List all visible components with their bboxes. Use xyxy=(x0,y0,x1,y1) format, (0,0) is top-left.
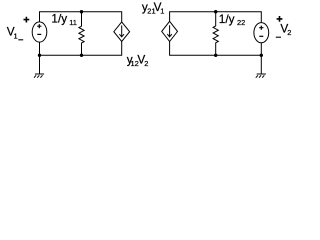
svg-text:2: 2 xyxy=(287,28,291,37)
wire: right circuit top rail xyxy=(170,12,262,23)
ground (right) xyxy=(256,55,266,77)
node dot: top of resistor 1/y11 xyxy=(80,10,83,13)
label V2 xyxy=(280,21,291,37)
label 1/y11 xyxy=(51,11,77,27)
polarity + of V2 xyxy=(277,16,283,22)
node dot: bottom of resistor 1/y22 xyxy=(214,54,217,57)
wire: left circuit bottom rail xyxy=(40,42,122,56)
wire: left circuit top rail xyxy=(40,12,122,22)
node dot: top of resistor 1/y22 xyxy=(214,10,217,13)
node dot: bottom of resistor 1/y11 xyxy=(80,54,83,57)
svg-text:1: 1 xyxy=(160,7,164,16)
voltage source V2 xyxy=(254,23,269,43)
polarity + of V1 xyxy=(24,17,30,23)
label 1/y22 xyxy=(219,12,246,27)
svg-text:1/y: 1/y xyxy=(219,12,235,26)
svg-text:1/y: 1/y xyxy=(51,11,67,25)
polarity - of V1 xyxy=(18,39,23,41)
node dot: bottom of V2 branch xyxy=(260,54,263,57)
dependent current source y12V2 (diamond) xyxy=(114,22,130,42)
label y21V1 xyxy=(142,0,164,16)
node dot: bottom of V1 branch xyxy=(38,54,41,57)
ground (left) xyxy=(34,55,44,77)
resistor 1/y22 xyxy=(213,12,218,56)
wire: right circuit bottom rail xyxy=(170,42,262,56)
label V1 xyxy=(7,25,18,41)
dependent current source y21V1 (diamond) xyxy=(162,21,178,41)
svg-text:11: 11 xyxy=(69,18,77,27)
polarity - of V2 xyxy=(276,36,281,38)
resistor 1/y11 xyxy=(79,12,84,56)
voltage source V1 xyxy=(32,22,47,42)
label y12V2 xyxy=(127,52,149,68)
svg-text:22: 22 xyxy=(237,18,245,27)
svg-text:1: 1 xyxy=(14,31,18,40)
svg-text:2: 2 xyxy=(144,59,148,68)
